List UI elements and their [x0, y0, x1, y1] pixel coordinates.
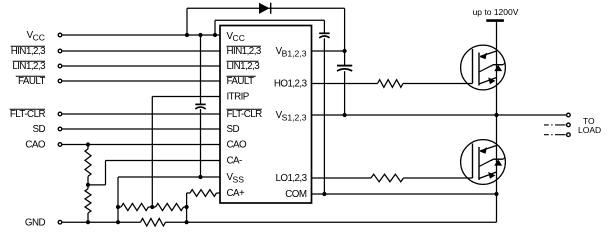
svg-text:CAO: CAO: [227, 140, 248, 151]
svg-text:LIN1,2,3: LIN1,2,3: [12, 61, 46, 72]
svg-text:HIN1,2,3: HIN1,2,3: [227, 46, 262, 57]
svg-text:FAULT: FAULT: [18, 76, 46, 87]
svg-text:LIN1,2,3: LIN1,2,3: [227, 61, 261, 72]
svg-text:VSS: VSS: [227, 172, 245, 184]
svg-text:FLT-CLR: FLT-CLR: [227, 109, 263, 120]
svg-text:VS1,2,3: VS1,2,3: [276, 110, 307, 122]
svg-text:FLT-CLR: FLT-CLR: [10, 109, 46, 120]
svg-text:LOAD: LOAD: [578, 125, 601, 135]
svg-text:HO1,2,3: HO1,2,3: [274, 79, 308, 90]
svg-text:ITRIP: ITRIP: [227, 92, 250, 103]
svg-text:CA+: CA+: [227, 188, 246, 199]
svg-text:FAULT: FAULT: [227, 76, 255, 87]
svg-text:SD: SD: [32, 124, 45, 135]
svg-text:CA-: CA-: [227, 156, 243, 167]
svg-text:COM: COM: [285, 189, 307, 200]
svg-text:VCC: VCC: [227, 31, 245, 43]
svg-text:GND: GND: [25, 217, 46, 228]
svg-text:SD: SD: [227, 124, 240, 135]
svg-text:up to 1200V: up to 1200V: [473, 7, 519, 17]
svg-text:VB1,2,3: VB1,2,3: [276, 46, 307, 58]
svg-text:LO1,2,3: LO1,2,3: [275, 173, 307, 184]
svg-text:HIN1,2,3: HIN1,2,3: [11, 46, 46, 57]
svg-text:CAO: CAO: [25, 140, 46, 151]
svg-text:VCC: VCC: [27, 30, 45, 42]
